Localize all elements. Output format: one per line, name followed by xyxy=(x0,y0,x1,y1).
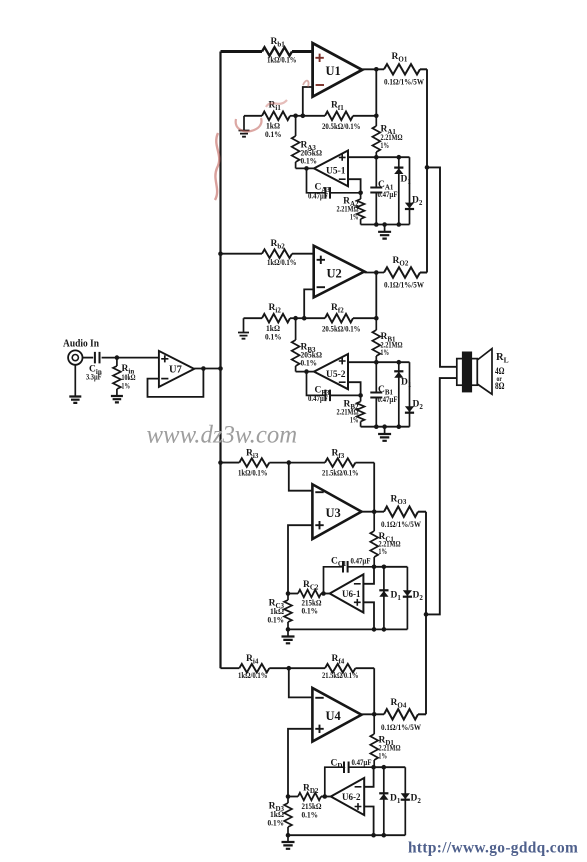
watermark dz3w xyxy=(147,422,298,449)
op-amp U3 xyxy=(312,484,361,539)
ground servo stage 3 xyxy=(282,629,295,643)
op-amp U6-2 xyxy=(331,778,364,815)
wire CD1 rail to D columns xyxy=(374,766,406,768)
resistor RB3 xyxy=(292,318,323,371)
node RC3 bottom xyxy=(286,627,291,632)
label Audio In xyxy=(63,339,99,350)
capacitor CB3 xyxy=(307,372,361,403)
red pencil mark at U1 minus corner xyxy=(303,81,309,87)
op-amp U1 xyxy=(313,43,363,97)
svg-text:0.1%: 0.1% xyxy=(301,157,318,166)
svg-text:0.1Ω/1%/5W: 0.1Ω/1%/5W xyxy=(384,281,424,290)
op-amp U2 xyxy=(314,246,365,298)
svg-text:1kΩ/0.1%: 1kΩ/0.1% xyxy=(267,56,297,65)
node bus B to speaker tap xyxy=(424,612,429,617)
node CB3-RB2 junction xyxy=(358,393,363,398)
ground servo stage 4 xyxy=(282,835,295,849)
node U1 output xyxy=(374,67,379,72)
svg-text:U3: U3 xyxy=(326,506,341,520)
resistor RC1 xyxy=(370,512,401,567)
wire U4 - input xyxy=(289,668,313,697)
resistor RD2 xyxy=(288,784,325,820)
wire U7 output to bus xyxy=(194,368,220,370)
diode D2 stage 2 xyxy=(405,362,423,427)
node RD2-RD3 junction xyxy=(286,794,291,799)
resistor RD1 xyxy=(370,714,401,767)
svg-text:CD1: CD1 xyxy=(331,759,347,771)
node feedback stage 1 (RA3 tap) xyxy=(293,114,298,119)
node U6-2 output xyxy=(323,794,328,799)
red pencil mark over Ri1 label xyxy=(266,100,287,107)
wire U3 + input xyxy=(288,525,312,593)
svg-text:1%: 1% xyxy=(379,547,388,556)
svg-text:D2: D2 xyxy=(412,196,423,208)
svg-text:CC1: CC1 xyxy=(331,557,347,569)
ground at input jack xyxy=(69,365,81,403)
node U6-2 + bottom junction xyxy=(371,833,376,838)
ground servo stage 1 xyxy=(378,225,391,239)
wire RA3 to U5-1 output xyxy=(296,167,314,169)
capacitor CA3 xyxy=(307,168,361,200)
svg-text:D2: D2 xyxy=(411,794,422,806)
node bus-U7-output junction xyxy=(218,366,223,371)
svg-text:3.3µF: 3.3µF xyxy=(86,373,102,382)
node feedback stage 1 (U1 - input) xyxy=(301,114,306,119)
svg-text:U4: U4 xyxy=(326,709,342,723)
svg-text:0.47µF: 0.47µF xyxy=(308,394,328,403)
resistor RA3 xyxy=(292,116,323,169)
wire U6-2 + input to ground rail xyxy=(364,807,373,836)
svg-text:0.47µF: 0.47µF xyxy=(308,191,328,200)
svg-text:0.1%: 0.1% xyxy=(302,811,319,820)
wire left input bus from U7 output to all stage inputs xyxy=(219,52,221,669)
svg-text:0.1%: 0.1% xyxy=(265,333,282,342)
resistor RD3 xyxy=(268,797,292,836)
wire servo ground rail stage 2 xyxy=(361,426,410,428)
capacitor CA1 xyxy=(370,157,397,224)
svg-text:0.1%: 0.1% xyxy=(301,359,318,368)
red pencil squiggle on bus xyxy=(215,133,219,200)
svg-text:1kΩ/0.1%: 1kΩ/0.1% xyxy=(267,258,297,267)
svg-text:0.1Ω/1%/5W: 0.1Ω/1%/5W xyxy=(384,78,424,87)
node D1 bottom stage 4 xyxy=(382,833,387,838)
capacitor CB1 xyxy=(370,362,397,427)
wire U7 feedback loop xyxy=(148,369,204,397)
node feedback stage 2 (RB3 tap) xyxy=(293,316,298,321)
node Rf2-RB1 junction xyxy=(374,316,379,321)
svg-text:1%: 1% xyxy=(350,416,359,425)
wire U6-2 output to RD2 xyxy=(321,796,331,798)
svg-text:0.1%: 0.1% xyxy=(268,819,285,828)
svg-text:Ri4: Ri4 xyxy=(246,654,259,666)
resistor RC3 xyxy=(268,594,292,630)
wire output bus A (U1+U2 outputs) xyxy=(426,69,428,272)
node RD3 bottom xyxy=(286,833,291,838)
diode D2 stage 1 xyxy=(405,157,423,224)
op-amp U6-1 xyxy=(330,574,364,612)
svg-text:0.47µF: 0.47µF xyxy=(378,395,398,404)
diode D1 stage 1 xyxy=(394,157,411,224)
svg-text:Rb2: Rb2 xyxy=(271,239,286,251)
wire servo ground rail stage 4 xyxy=(288,834,405,836)
node U4 inverting input junction xyxy=(287,666,292,671)
wire Ri3 row from bus xyxy=(221,462,240,464)
svg-text:0.47µF: 0.47µF xyxy=(352,758,372,767)
svg-text:RO3: RO3 xyxy=(391,495,407,507)
node U7 output xyxy=(201,366,206,371)
wire U4 output xyxy=(362,713,385,715)
node U2 output xyxy=(374,270,379,275)
op-amp U5-1 xyxy=(314,151,348,187)
resistor RA2 xyxy=(337,193,365,225)
capacitor CD1 xyxy=(325,758,374,797)
wire U3 - input xyxy=(289,463,313,491)
node bus A to speaker tap xyxy=(425,165,430,170)
wire U5-2 - input to CB3/RB2 xyxy=(348,382,361,395)
wire RO1 to output bus A xyxy=(420,68,427,70)
speaker RL xyxy=(457,349,492,395)
ground at Rin xyxy=(111,396,123,402)
svg-text:Ri3: Ri3 xyxy=(246,449,259,461)
node bus-Ri3 junction xyxy=(218,460,223,465)
wire Rf1 node up to U1 output xyxy=(375,69,377,116)
svg-text:1%: 1% xyxy=(350,213,359,222)
node Cin-Rin junction xyxy=(115,355,120,360)
svg-text:1kΩ/0.1%: 1kΩ/0.1% xyxy=(238,469,268,478)
wire U6-1 output to RC2 xyxy=(321,593,330,595)
resistor Rf3 xyxy=(289,449,374,478)
svg-text:Rf3: Rf3 xyxy=(332,449,345,461)
wire Ri4 row from bus xyxy=(221,667,240,669)
svg-text:U5-2: U5-2 xyxy=(326,370,346,380)
wire servo ground rail stage 3 xyxy=(288,628,407,630)
resistor RC2 xyxy=(288,580,324,616)
wire Rf2 node up to U2 output xyxy=(375,273,377,319)
svg-text:20.5kΩ/0.1%: 20.5kΩ/0.1% xyxy=(322,325,361,334)
resistor Rb2 xyxy=(262,239,297,267)
svg-text:0.1Ω/1%/5W: 0.1Ω/1%/5W xyxy=(381,723,421,732)
op-amp U4 xyxy=(312,688,361,742)
node CA3-RA2 junction xyxy=(358,191,363,196)
svg-text:Rf2: Rf2 xyxy=(331,303,344,315)
svg-text:D2: D2 xyxy=(413,591,424,603)
resistor RB1 xyxy=(372,318,403,362)
svg-text:RO1: RO1 xyxy=(392,52,408,64)
node RA1-CA1 junction on + rail xyxy=(374,155,379,160)
svg-text:0.1%: 0.1% xyxy=(265,130,282,139)
resistor RA1 xyxy=(372,116,403,157)
node U3 output xyxy=(372,509,377,514)
node D1 top junction stage 1 xyxy=(397,155,402,160)
wire Ri3 to U3 - node xyxy=(269,462,289,464)
svg-text:21.5kΩ/0.1%: 21.5kΩ/0.1% xyxy=(322,469,359,478)
node D1 bottom stage 3 xyxy=(382,627,387,632)
svg-text:Rb1: Rb1 xyxy=(271,37,286,49)
node U6-1 + bottom junction xyxy=(372,627,377,632)
svg-text:21.5kΩ/0.1%: 21.5kΩ/0.1% xyxy=(322,671,359,680)
input jack xyxy=(68,350,82,364)
wire jack to Cin xyxy=(83,357,94,359)
node ground tap stage 1 xyxy=(382,222,387,227)
svg-text:U2: U2 xyxy=(327,267,342,281)
svg-text:U6-2: U6-2 xyxy=(342,792,361,802)
svg-text:D1: D1 xyxy=(391,591,402,603)
svg-text:D1: D1 xyxy=(390,794,401,806)
node U3 inverting input junction xyxy=(287,460,292,465)
svg-text:D2: D2 xyxy=(413,400,424,412)
svg-text:1%: 1% xyxy=(379,752,388,761)
node Rf1-RA1 junction xyxy=(374,114,379,119)
resistor Rf2 xyxy=(304,303,376,334)
node RC2-RC3 junction xyxy=(286,591,291,596)
node D1 top stage 3 xyxy=(382,565,387,570)
wire RO2 to output bus A xyxy=(420,272,427,274)
svg-text:0.47µF: 0.47µF xyxy=(378,190,398,199)
wire output bus B (U3+U4 outputs) xyxy=(425,512,427,715)
svg-text:0.47µF: 0.47µF xyxy=(351,557,371,566)
svg-text:RO4: RO4 xyxy=(391,698,407,710)
wire Rb1 input row stage 1 xyxy=(221,50,263,53)
svg-text:RC2: RC2 xyxy=(303,580,319,592)
svg-text:0.1Ω/1%/5W: 0.1Ω/1%/5W xyxy=(381,520,421,529)
wire Rb2 input row stage 2 xyxy=(221,253,263,255)
label RL value xyxy=(495,366,505,391)
node CD1-RD1 junction xyxy=(371,765,376,770)
node feedback stage 2 (U2 - input) xyxy=(302,316,307,321)
node RB1-CB1 junction on + rail xyxy=(374,360,379,365)
resistor Rf4 xyxy=(289,654,374,680)
ground at Ri2 xyxy=(238,318,249,339)
wire servo ground rail stage 1 xyxy=(361,224,410,226)
node D1 top junction stage 2 xyxy=(397,360,402,365)
svg-text:www.dz3w.com: www.dz3w.com xyxy=(147,422,298,449)
op-amp U7 xyxy=(159,351,194,387)
watermark go-gddq xyxy=(408,839,578,856)
wire RO3 to output bus B xyxy=(418,511,426,513)
diode D2 stage 3 xyxy=(403,567,424,630)
node CC1-RC1 junction xyxy=(372,565,377,570)
svg-text:Audio In: Audio In xyxy=(63,339,99,350)
svg-text:8Ω: 8Ω xyxy=(495,381,505,391)
node U5-1 output / CA3 tap xyxy=(304,166,309,171)
svg-text:Rf4: Rf4 xyxy=(332,654,345,666)
wire Rf3 down to U3 output xyxy=(373,463,375,512)
wire U4 + input xyxy=(288,729,312,797)
wire U1 output xyxy=(362,68,384,70)
svg-text:http://www.go-gddq.com: http://www.go-gddq.com xyxy=(408,839,578,856)
svg-text:U7: U7 xyxy=(169,365,182,376)
node bus-Rb2 junction xyxy=(218,251,223,256)
ground at Ri1 xyxy=(239,116,250,137)
node CA1 bottom xyxy=(374,222,379,227)
wire Rb2 to U2 + input xyxy=(292,253,314,255)
resistor Rb1 xyxy=(262,37,297,65)
wire Cin to Rin node xyxy=(102,357,159,359)
svg-text:1%: 1% xyxy=(122,382,131,391)
red pencil mark at Ri1 ground xyxy=(236,118,262,131)
diode D1 stage 3 xyxy=(379,567,401,630)
label RL xyxy=(496,352,509,365)
wire U5-1 - input to CA3/RA2 xyxy=(348,179,361,193)
node D1 top stage 4 xyxy=(382,765,387,770)
node U6-1 output xyxy=(321,591,326,596)
wire U1 inverting input xyxy=(303,87,313,116)
svg-text:Rf1: Rf1 xyxy=(331,101,344,113)
resistor Ri1 xyxy=(244,101,290,140)
resistor Ri3 xyxy=(238,449,269,478)
node U4 output xyxy=(372,712,377,717)
wire CC1 rail to D columns xyxy=(374,566,407,568)
resistor RO1 xyxy=(384,52,424,87)
svg-text:U5-1: U5-1 xyxy=(326,167,346,177)
node D1 bottom stage 2 xyxy=(397,424,402,429)
wire U6-1 - input to CC1 xyxy=(363,567,374,584)
node D1 bottom stage 1 xyxy=(397,222,402,227)
resistor RO2 xyxy=(384,256,424,290)
svg-text:20.5kΩ/0.1%: 20.5kΩ/0.1% xyxy=(322,122,361,131)
diode D2 stage 4 xyxy=(401,767,422,835)
diode D1 stage 2 xyxy=(394,362,412,427)
wire Rb1 to U1 + input xyxy=(292,50,313,53)
svg-text:U1: U1 xyxy=(326,64,341,78)
svg-text:RL: RL xyxy=(496,352,509,365)
svg-text:U6-1: U6-1 xyxy=(342,589,361,599)
svg-text:Ri2: Ri2 xyxy=(269,303,282,315)
wire U6-1 + input to ground rail xyxy=(363,602,374,629)
wire Rf4 down to U4 output xyxy=(373,668,375,714)
svg-text:0.1%: 0.1% xyxy=(302,607,319,616)
capacitor CC1 xyxy=(324,557,375,594)
svg-text:1kΩ/0.1%: 1kΩ/0.1% xyxy=(238,671,268,680)
svg-text:1%: 1% xyxy=(381,141,390,150)
wire RB3 to U5-2 output xyxy=(296,371,314,373)
svg-text:RD2: RD2 xyxy=(303,784,319,796)
node U5-2 output / CB3 tap xyxy=(304,369,309,374)
op-amp U5-2 xyxy=(314,354,348,389)
wire RO4 to output bus B xyxy=(418,713,426,715)
wire Ri1 to feedback node xyxy=(290,115,303,117)
wire U6-2 - input to CD1 xyxy=(364,767,373,787)
wire speaker positive lead xyxy=(427,167,457,366)
resistor Rin xyxy=(113,358,136,396)
wire U5-2 + input rail xyxy=(348,361,410,363)
resistor RB2 xyxy=(337,395,365,426)
wire Ri4 to U4 - node xyxy=(269,667,289,669)
node CB1 bottom xyxy=(374,424,379,429)
resistor Ri2 xyxy=(244,303,291,342)
ground servo stage 2 xyxy=(378,427,391,441)
svg-text:0.1%: 0.1% xyxy=(268,616,285,625)
resistor Rf1 xyxy=(303,101,377,132)
resistor RO3 xyxy=(381,495,421,530)
capacitor Cin xyxy=(86,352,102,382)
svg-text:1%: 1% xyxy=(381,348,390,357)
resistor RO4 xyxy=(381,698,421,732)
node ground tap stage 2 xyxy=(382,424,387,429)
wire speaker negative lead xyxy=(426,378,457,614)
wire U2 inverting input xyxy=(304,289,314,318)
diode D1 stage 4 xyxy=(379,767,401,835)
resistor Ri4 xyxy=(238,654,269,680)
wire Ri2 to feedback node xyxy=(290,317,304,319)
wire U3 output xyxy=(362,511,385,513)
wire U2 output xyxy=(364,272,384,274)
svg-text:RO2: RO2 xyxy=(393,256,409,268)
wire U5-1 + input rail xyxy=(348,156,410,158)
